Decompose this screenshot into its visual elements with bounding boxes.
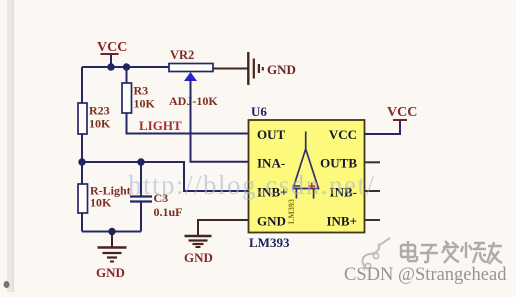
svg-text:10K: 10K (89, 117, 111, 131)
watermark logo icon (elecfans) (363, 238, 390, 269)
svg-text:U6: U6 (251, 104, 267, 119)
pin stub INB- (365, 190, 381, 192)
ground (bottom left) (96, 232, 127, 281)
wire VCC rail (82, 66, 169, 68)
wire LIGHT net (R3 bottom to OUT pin) (127, 113, 249, 134)
designator U6 (251, 104, 267, 119)
svg-text:LM393: LM393 (287, 199, 296, 224)
watermark CSDN @Strangehead (344, 265, 507, 285)
svg-text:INB+: INB+ (326, 214, 357, 229)
svg-text:GND: GND (96, 265, 125, 280)
pin OUT (257, 127, 286, 142)
svg-text:OUTB: OUTB (320, 156, 357, 171)
wire chip VCC pin to power (365, 121, 401, 134)
junction (R23 / left net) (78, 158, 85, 165)
wire left net (R23 bottom / C3 / R-Light to INB+ pin) (82, 162, 249, 191)
svg-text:VCC: VCC (387, 105, 417, 120)
power symbol VCC (right) (387, 105, 417, 120)
op-amp U6 (LM393) body (249, 120, 365, 233)
svg-text:0.1uF: 0.1uF (154, 205, 183, 219)
svg-text:10K: 10K (134, 97, 156, 111)
wire VR2 to GND (213, 68, 248, 70)
svg-text:VR2: VR2 (170, 48, 194, 62)
resistor R-Light (78, 162, 131, 232)
svg-text:INA-: INA- (257, 156, 285, 171)
svg-text:CSDN @Strangehead: CSDN @Strangehead (344, 265, 507, 285)
svg-text:VCC: VCC (329, 127, 357, 142)
pin stub INB+ (365, 219, 381, 221)
capacitor C3 (130, 162, 183, 232)
svg-text:LM393: LM393 (249, 235, 290, 250)
op-amp triangle symbol inside U6 (287, 132, 319, 225)
pin INB+ (left) (257, 185, 288, 200)
svg-text:ADJ-10K: ADJ-10K (169, 94, 218, 108)
pin GND (257, 214, 286, 229)
svg-text:GND: GND (184, 250, 213, 265)
svg-text:GND: GND (267, 62, 296, 77)
pin OUTB (320, 156, 357, 171)
svg-text:VCC: VCC (97, 40, 127, 55)
pin INA- (257, 156, 285, 171)
watermark logo characters (电子发烧友 approximation) (401, 241, 502, 264)
wire wiper net (VR2 arrow to INA- pin) (191, 79, 249, 162)
svg-text:http://blog.csdn.net/: http://blog.csdn.net/ (128, 170, 376, 200)
potentiometer VR2 (169, 48, 218, 108)
junction (R3 / rail) (123, 63, 130, 70)
pin VCC (329, 127, 357, 142)
svg-text:LIGHT: LIGHT (139, 118, 182, 133)
ground (middle, chip GND) (184, 236, 213, 265)
ground (top right, sideways) (248, 52, 296, 85)
wire chip GND pin to ground (198, 220, 249, 235)
power symbol VCC (left) (97, 40, 127, 67)
svg-text:OUT: OUT (257, 127, 286, 142)
pin INB- (330, 185, 357, 200)
pin stub OUTB (365, 161, 381, 163)
resistor R23 (78, 67, 111, 162)
net label LIGHT (139, 118, 182, 133)
junction (C3 / left net) (137, 158, 144, 165)
wire bottom (R-Light to C3) (82, 231, 141, 233)
pin INB+ (right) (326, 214, 357, 229)
svg-text:GND: GND (257, 214, 286, 229)
junction (VCC stem / rail) (107, 63, 114, 70)
svg-text:R23: R23 (89, 104, 110, 118)
svg-text:R3: R3 (134, 84, 149, 98)
junction (GND stem / bottom wire) (108, 228, 115, 235)
resistor R3 (122, 67, 156, 113)
watermark blog address text (128, 170, 376, 200)
svg-text:10K: 10K (90, 196, 112, 210)
part value LM393 (249, 235, 290, 250)
